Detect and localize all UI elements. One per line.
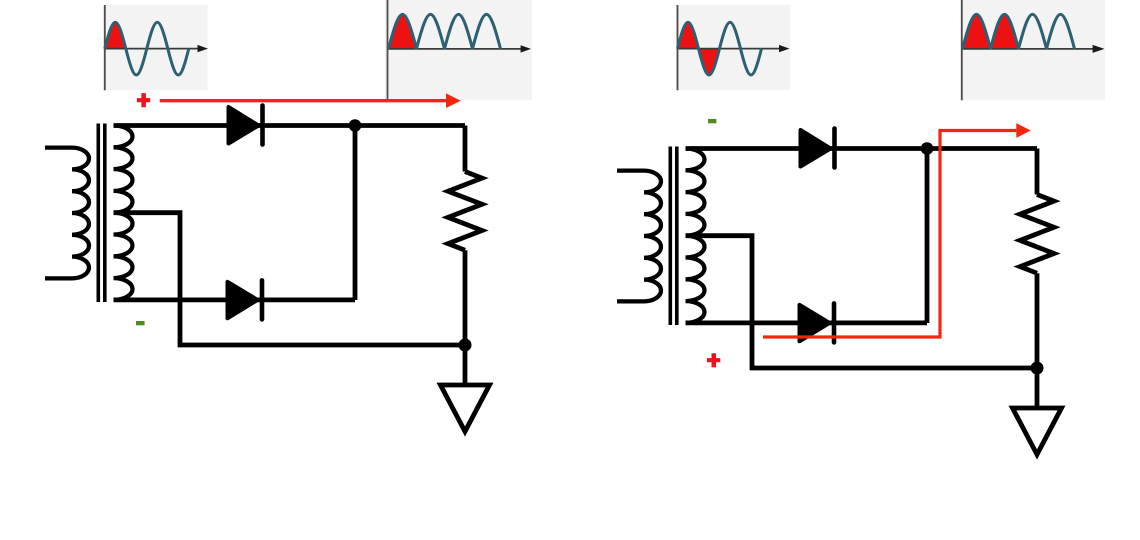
node: ground junction dot (right) [1031,362,1044,375]
polarity label + (left) [137,93,150,107]
resistor R1 (load, left) [448,172,482,251]
input waveform inset (left): sine with first positive half highlighted [103,5,208,90]
polarity label - (left) [136,321,145,325]
polarity label + (right) [707,353,720,367]
node: ground junction dot (left) [459,339,472,352]
wire: secondary bottom to bottom diode (right) [686,320,928,325]
ground symbol (right) [1013,408,1062,455]
wire: load right rail bottom to ground (right) [1035,273,1040,408]
wire: center tap to ground rail (right) [686,236,1038,368]
input waveform inset (right): sine with first full cycle highlighted [676,5,790,90]
transformer T1 core [98,124,105,303]
diode D1 (left top) [229,106,263,145]
wire: secondary bottom to bottom diode (left) [114,297,356,302]
transformer T2 primary winding (right) [617,171,661,302]
current flow arrow (right, negative half-cycle path) [763,123,1031,337]
transformer T2 secondary winding (right) [686,149,705,323]
wire: top junction down to bottom diode output (left) [353,126,358,301]
diode D2 (left bottom) [228,280,263,319]
ground symbol (left) [441,385,490,432]
wire: secondary top to load (top rail, left) [114,123,466,128]
wire: center tap to ground rail (left) [114,213,466,345]
node: top junction dot (left) [349,119,362,132]
output waveform inset (right): full-wave rectified, first two humps highlighted [960,0,1105,100]
diode D4 (right bottom) [800,303,835,342]
wire: load right rail top (right) [1035,149,1040,195]
transformer T1 primary winding (left) [45,148,89,279]
node: top junction dot (right) [921,142,934,155]
wire: load right rail bottom to ground (left) [463,250,468,385]
wire: load right rail top (left) [463,126,468,172]
output waveform inset (left): full-wave rectified, first hump highlighted [385,0,532,100]
wire: secondary top to load (top rail, right) [686,146,1038,151]
current flow arrow (left, positive half-cycle) [160,93,461,108]
wire: top junction down to bottom diode output (right) [925,149,930,324]
resistor R2 (load, right) [1020,195,1054,274]
transformer T1 secondary winding (left) [114,126,133,300]
diode D3 (right top) [801,129,835,168]
transformer T2 core [670,147,677,326]
polarity label - (right) [708,119,716,123]
